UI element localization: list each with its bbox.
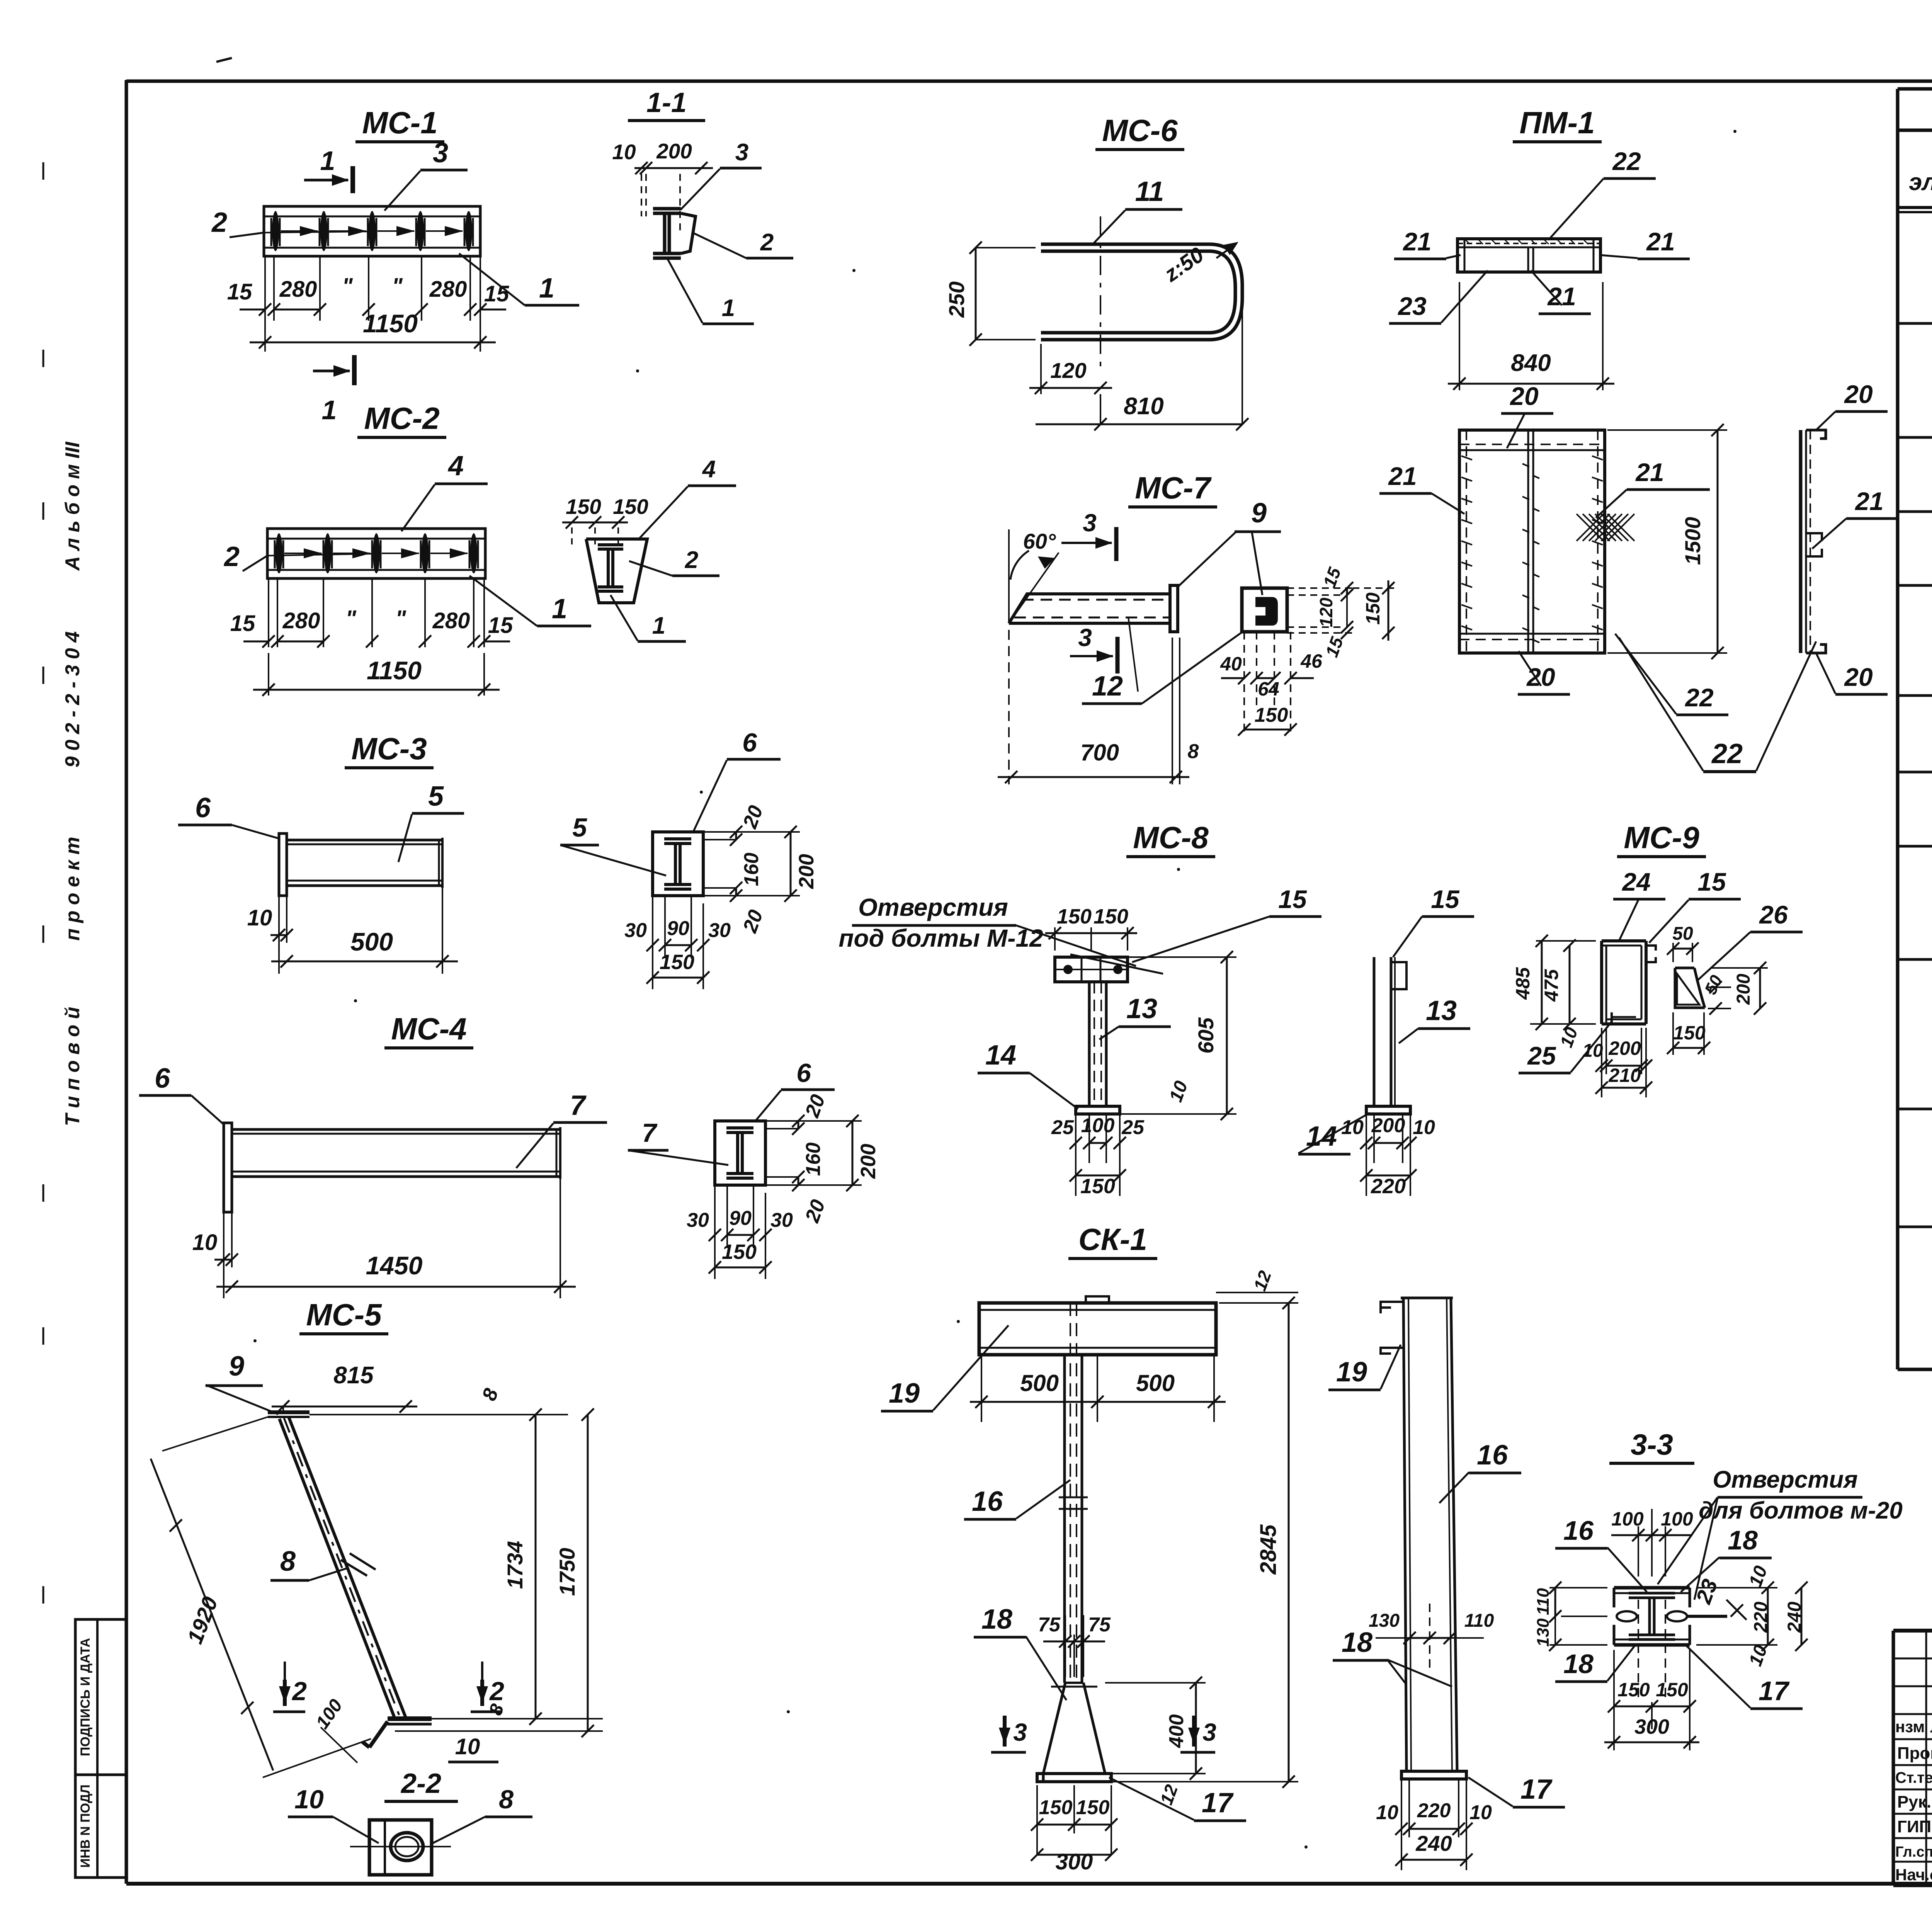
svg-text:6: 6 (155, 1063, 170, 1094)
svg-text:15: 15 (488, 613, 513, 638)
svg-text:Нач.отд.: Нач.отд. (1895, 1866, 1932, 1884)
svg-text:МС-3: МС-3 (351, 731, 427, 766)
svg-text:ПОДПИСЬ И ДАТА: ПОДПИСЬ И ДАТА (78, 1638, 93, 1756)
svg-text:26: 26 (1759, 900, 1788, 929)
svg-text:15: 15 (227, 279, 252, 304)
МС-4 section plate 7-6 (715, 1121, 765, 1185)
svg-text:10: 10 (455, 1734, 480, 1759)
МС-8 side view column (1373, 957, 1376, 1106)
МС-8 side dims below 10 200 10 220 (1366, 1114, 1367, 1196)
svg-text:46: 46 (1300, 650, 1323, 672)
svg-text:200: 200 (656, 139, 692, 163)
svg-text:13: 13 (1426, 995, 1457, 1026)
svg-text:6: 6 (796, 1058, 811, 1088)
svg-text:20: 20 (1844, 380, 1873, 408)
svg-text:240: 240 (1415, 1831, 1452, 1855)
svg-text:12: 12 (1092, 671, 1123, 702)
МС-3 dim 500 (271, 961, 458, 963)
svg-text:64: 64 (1258, 678, 1279, 700)
svg-text:2: 2 (685, 547, 698, 573)
svg-text:элемента: элемента (1909, 169, 1932, 196)
svg-text:4: 4 (447, 451, 464, 481)
МС-9 dims 485 475 (1536, 940, 1596, 942)
svg-text:150: 150 (722, 1240, 757, 1264)
svg-text:120: 120 (1316, 597, 1336, 627)
svg-text:30: 30 (770, 1209, 793, 1231)
СК-1 side dims 130 110 (1376, 1637, 1410, 1639)
svg-text:9: 9 (1251, 498, 1267, 529)
svg-text:220: 220 (1371, 1175, 1406, 1198)
svg-text:25: 25 (1121, 1116, 1145, 1139)
svg-text:9: 9 (229, 1351, 244, 1382)
svg-text:110: 110 (1464, 1611, 1494, 1631)
svg-text:": " (392, 274, 403, 299)
side box Инв N подл (75, 1775, 126, 1878)
svg-text:200: 200 (1733, 974, 1754, 1005)
svg-text:21: 21 (1388, 462, 1417, 490)
svg-text:1150: 1150 (363, 309, 418, 338)
svg-text:160: 160 (802, 1143, 825, 1176)
svg-text:5: 5 (428, 781, 444, 812)
СК-1 column (1063, 1355, 1066, 1683)
МС-6 centerline (1100, 216, 1101, 371)
МС-6 dim 250 left (975, 248, 977, 340)
МС-6 U-bolt rod (1041, 244, 1242, 340)
МС-2 dimension row (268, 578, 269, 647)
ПМ-1 plan hatch patch (1577, 514, 1604, 541)
svg-text:15: 15 (1278, 885, 1307, 913)
svg-text:9 0 2 - 2 - 3 0 4: 9 0 2 - 2 - 3 0 4 (61, 631, 84, 768)
ПМ-1 top view bar (1458, 239, 1600, 272)
svg-text:485: 485 (1512, 967, 1534, 1000)
spec table outer (1896, 89, 1900, 1369)
МС-8 column (1088, 982, 1091, 1106)
svg-text:475: 475 (1541, 969, 1562, 1002)
svg-text:1: 1 (722, 295, 735, 321)
svg-text:10: 10 (1469, 1801, 1492, 1824)
МС-8 dim 605 (1128, 956, 1236, 958)
svg-text:1150: 1150 (367, 656, 422, 685)
svg-text:100: 100 (1081, 1114, 1115, 1137)
section marks 2-2 (283, 1680, 287, 1706)
svg-text:21: 21 (1402, 227, 1431, 256)
3-3 dims 150 150 300 (1613, 1650, 1615, 1750)
svg-text:10: 10 (294, 1785, 324, 1814)
СК-1 dims 150 150 300 (1036, 1785, 1038, 1855)
МС-5 slanted strut (289, 1417, 406, 1719)
svg-text:150: 150 (1094, 905, 1128, 928)
МС-4 section dims right (765, 1120, 862, 1122)
svg-text:500: 500 (350, 927, 393, 956)
svg-text:нзм: нзм (1895, 1718, 1925, 1736)
svg-text:МС-2: МС-2 (364, 401, 440, 435)
svg-text:17: 17 (1520, 1774, 1553, 1805)
svg-text:23: 23 (1397, 292, 1426, 320)
svg-text:2: 2 (489, 1677, 504, 1706)
svg-text:280: 280 (279, 277, 317, 302)
svg-text:2: 2 (223, 541, 240, 572)
svg-text:3: 3 (1013, 1718, 1027, 1746)
СК-1 top flange beam (979, 1303, 1216, 1355)
svg-text:для болтов м-20: для болтов м-20 (1699, 1497, 1903, 1524)
svg-text:210: 210 (1608, 1065, 1641, 1086)
МС-7 section mark 3 lower (1116, 637, 1120, 673)
МС-4 section dims below (714, 1185, 716, 1279)
СК-1 side base (1401, 1771, 1466, 1779)
svg-text:МС-6: МС-6 (1102, 113, 1178, 148)
svg-text:150: 150 (1362, 592, 1384, 625)
svg-text:3: 3 (735, 139, 748, 166)
СК-1 side hooks (1381, 1302, 1403, 1308)
svg-text:МС-8: МС-8 (1133, 820, 1209, 855)
beam МС-1 top view (264, 206, 480, 256)
svg-text:1: 1 (652, 612, 665, 639)
svg-text:220: 220 (1417, 1799, 1451, 1822)
svg-text:500: 500 (1020, 1370, 1059, 1396)
svg-text:11: 11 (1135, 176, 1164, 207)
МС-7 section mark 3 upper (1114, 527, 1119, 561)
section mark 1 lower (352, 355, 357, 385)
МС-5 vertical dims 1734 1750 (310, 1414, 568, 1415)
ПМ-1 plan weld ticks (1461, 456, 1472, 460)
svg-text:7: 7 (642, 1118, 658, 1148)
svg-text:280: 280 (432, 608, 470, 633)
svg-text:3-3: 3-3 (1631, 1429, 1673, 1461)
svg-text:30: 30 (687, 1209, 709, 1231)
svg-text:130: 130 (1369, 1611, 1400, 1631)
svg-text:815: 815 (333, 1362, 374, 1389)
gusset dims 50 50 200 150 (1672, 943, 1674, 962)
svg-text:5: 5 (572, 813, 587, 842)
3-3 dims right 10 220 240 10 (1696, 1587, 1777, 1588)
svg-text:1: 1 (552, 594, 567, 624)
svg-text:150: 150 (613, 495, 648, 519)
svg-text:220: 220 (1751, 1602, 1771, 1633)
svg-text:30: 30 (624, 919, 647, 942)
svg-text:300: 300 (1634, 1715, 1669, 1738)
section marks 3 (1003, 1716, 1007, 1747)
МС-7 channel bar side view (1009, 594, 1170, 623)
svg-text:1750: 1750 (555, 1548, 579, 1596)
scan dash top left (216, 58, 232, 62)
3-3 section drawing (1614, 1586, 1690, 1590)
section dims right 20 160 20 200 (703, 831, 800, 833)
svg-text:21: 21 (1547, 282, 1576, 311)
svg-text:10: 10 (1413, 1116, 1435, 1139)
svg-text:150: 150 (1617, 1679, 1650, 1701)
svg-text:18: 18 (1728, 1525, 1758, 1555)
svg-text:18: 18 (1563, 1649, 1594, 1679)
МС-8 dims below 25 100 25 150 (1075, 1114, 1077, 1196)
svg-text:1: 1 (322, 395, 337, 425)
СК-1 base trapezoid (1065, 1682, 1083, 1684)
СК-1 column break mark (1059, 1497, 1088, 1498)
svg-text:4: 4 (702, 456, 716, 483)
svg-text:16: 16 (1563, 1515, 1594, 1546)
svg-text:500: 500 (1136, 1370, 1175, 1396)
svg-text:10: 10 (1341, 1116, 1364, 1139)
svg-text:2-2: 2-2 (400, 1768, 441, 1799)
svg-text:810: 810 (1124, 393, 1163, 420)
МС-9 gusset triangle 26 (1675, 967, 1694, 969)
svg-text:Гл.спец.отд: Гл.спец.отд (1895, 1844, 1932, 1860)
scan speckles (636, 369, 639, 372)
МС-5 dim 815 (272, 1406, 417, 1408)
sheet frame top border (126, 80, 1932, 83)
svg-text:150: 150 (1080, 1175, 1115, 1198)
svg-text:3: 3 (433, 138, 448, 168)
svg-text:Отверстия: Отверстия (1713, 1466, 1858, 1493)
svg-text:18: 18 (981, 1604, 1012, 1635)
svg-text:75: 75 (1088, 1614, 1111, 1636)
svg-text:840: 840 (1511, 350, 1551, 376)
spec table column header lines (1898, 206, 1932, 209)
svg-text:15: 15 (1431, 885, 1460, 913)
svg-text:МС-4: МС-4 (391, 1012, 467, 1046)
svg-text:А л ь б о м III: А л ь б о м III (61, 441, 84, 571)
svg-text:200: 200 (857, 1144, 880, 1179)
МС-7 end plate (1170, 585, 1178, 632)
svg-text:10: 10 (1376, 1801, 1398, 1824)
side box Подпись и дата (75, 1619, 126, 1775)
1-1 dims 10 200 (641, 167, 646, 169)
title block frame (1893, 1629, 1932, 1633)
svg-text:22: 22 (1684, 683, 1714, 712)
МС-9 channel assembly (1602, 939, 1646, 942)
СК-1 dims 75 75 (1065, 1615, 1066, 1677)
МС-5 slanted dim 1920 (151, 1459, 273, 1770)
svg-text:14: 14 (985, 1040, 1016, 1071)
sheet frame bottom border (126, 1882, 1932, 1886)
svg-text:": " (345, 606, 357, 631)
3-3 dims left 110 130 (1549, 1587, 1607, 1588)
svg-text:1: 1 (320, 146, 335, 176)
svg-text:21: 21 (1854, 487, 1883, 515)
ПМ-1 plan (1459, 430, 1605, 653)
svg-text:2845: 2845 (1256, 1524, 1281, 1575)
svg-text:Рук.гр: Рук.гр (1897, 1793, 1932, 1811)
svg-text:200: 200 (795, 854, 818, 889)
svg-text:2: 2 (760, 229, 774, 256)
МС-7 dims right 15 120 15 150 (1287, 587, 1352, 589)
МС-5 bottom plate and angle (388, 1716, 432, 1721)
МС-7 channel section square (1242, 588, 1287, 632)
svg-text:МС-1: МС-1 (362, 105, 438, 140)
svg-text:150: 150 (1255, 704, 1288, 726)
svg-text:1-1: 1-1 (646, 87, 687, 118)
svg-text:21: 21 (1635, 458, 1664, 486)
svg-text:8: 8 (1188, 740, 1199, 763)
СК-1 side dims 10 220 10 240 (1401, 1779, 1402, 1870)
МС-3 side view bar (279, 833, 287, 896)
svg-text:75: 75 (1038, 1614, 1061, 1636)
МС-4 dim 10 (223, 1212, 224, 1298)
svg-text:21: 21 (1646, 227, 1675, 256)
svg-text:МС-9: МС-9 (1624, 820, 1699, 855)
svg-text:15: 15 (1697, 867, 1726, 896)
svg-text:Ст.техник: Ст.техник (1895, 1769, 1932, 1786)
МС-2 dimension 1150 (268, 653, 269, 696)
svg-text:8: 8 (499, 1785, 514, 1814)
svg-text:Провер.: Провер. (1897, 1744, 1932, 1763)
svg-text:200: 200 (1608, 1037, 1641, 1059)
СК-1 dim 400 (1105, 1682, 1206, 1684)
svg-text:6: 6 (195, 793, 211, 823)
МС-8 top plate (1055, 957, 1128, 982)
svg-text:300: 300 (1056, 1849, 1093, 1874)
svg-text:150: 150 (1673, 1022, 1706, 1044)
svg-text:МС-5: МС-5 (306, 1298, 382, 1332)
svg-text:МС-7: МС-7 (1135, 471, 1212, 505)
svg-text:100: 100 (1611, 1508, 1644, 1530)
МС-5 top plate (268, 1410, 310, 1414)
svg-text:90: 90 (729, 1207, 752, 1230)
svg-text:20: 20 (1509, 382, 1539, 410)
svg-text:250: 250 (944, 281, 969, 318)
svg-text:40: 40 (1220, 653, 1242, 675)
svg-text:10: 10 (247, 905, 272, 930)
МС-7 dim 700 8 (1008, 630, 1010, 784)
svg-text:": " (395, 606, 406, 631)
svg-text:50: 50 (1672, 923, 1693, 944)
svg-text:20: 20 (1844, 663, 1873, 691)
ПМ-1 side channel (1799, 430, 1803, 653)
svg-text:90: 90 (667, 917, 689, 940)
svg-text:22: 22 (1711, 738, 1743, 769)
svg-text:10: 10 (612, 140, 636, 164)
svg-text:13: 13 (1126, 993, 1157, 1024)
svg-text:30: 30 (708, 919, 731, 942)
СК-1 side view column (1401, 1297, 1453, 1299)
svg-text:2: 2 (291, 1677, 307, 1706)
svg-text:60°: 60° (1023, 529, 1056, 553)
svg-text:15: 15 (230, 611, 255, 636)
svg-text:6: 6 (742, 728, 757, 757)
МС-3 dim 10 (278, 896, 280, 974)
svg-text:3: 3 (1083, 509, 1097, 537)
svg-text:20: 20 (1526, 663, 1555, 691)
svg-text:100: 100 (1661, 1508, 1693, 1530)
svg-text:под болты М-12: под болты М-12 (838, 924, 1043, 952)
svg-text:1450: 1450 (366, 1251, 423, 1280)
svg-text:1: 1 (539, 273, 554, 304)
МС-4 side view bar (224, 1123, 232, 1212)
svg-text:3: 3 (1202, 1718, 1216, 1746)
svg-text:120: 120 (1050, 358, 1086, 383)
svg-text:": " (342, 274, 353, 299)
СК-1 dim 2845 (1219, 1302, 1298, 1304)
svg-text:17: 17 (1202, 1787, 1234, 1818)
svg-text:130: 130 (1534, 1618, 1553, 1647)
svg-text:ПМ-1: ПМ-1 (1519, 105, 1595, 140)
svg-text:150: 150 (566, 495, 601, 519)
svg-text:п р о е к т: п р о е к т (61, 837, 84, 940)
svg-text:18: 18 (1342, 1627, 1372, 1658)
svg-text:150: 150 (660, 951, 694, 974)
МС-9 dims below 10 200 210 (1601, 1028, 1602, 1097)
МС-8 side base plate (1366, 1106, 1410, 1114)
МС-1 dimension row 15-280-280-15 (264, 256, 266, 321)
svg-text:16: 16 (1477, 1440, 1508, 1471)
svg-text:25: 25 (1527, 1041, 1556, 1070)
СК-1 dim 500 500 (981, 1355, 982, 1422)
svg-text:150: 150 (1039, 1796, 1073, 1819)
svg-text:605: 605 (1194, 1017, 1218, 1053)
svg-text:240: 240 (1784, 1602, 1805, 1633)
svg-text:110: 110 (1534, 1588, 1553, 1615)
svg-text:ИНВ N ПОДЛ: ИНВ N ПОДЛ (78, 1784, 93, 1868)
svg-text:СК-1: СК-1 (1078, 1222, 1147, 1257)
svg-text:19: 19 (889, 1378, 920, 1409)
op 1-1 I-beam section with plate (653, 207, 681, 211)
svg-text:200: 200 (1371, 1114, 1405, 1137)
scan fold marks left margin (43, 162, 44, 180)
svg-text:16: 16 (972, 1486, 1003, 1517)
svg-text:150: 150 (1057, 905, 1092, 928)
svg-text:400: 400 (1165, 1714, 1188, 1748)
ПМ-1 dim 840 (1459, 282, 1460, 390)
svg-text:150: 150 (1656, 1679, 1688, 1701)
svg-text:1734: 1734 (503, 1541, 527, 1589)
ПМ-1 dim 1500 (1607, 429, 1727, 431)
МС-8 dims 150 150 top (1054, 927, 1056, 951)
section mark 1 upper (350, 166, 355, 193)
МС-2 trapezoid section (586, 539, 647, 603)
2-2 plate with hole (369, 1820, 432, 1875)
МС-6 dim 120 (1040, 344, 1042, 394)
МС-1 dimension 1150 (264, 321, 266, 352)
svg-text:7: 7 (570, 1090, 587, 1121)
МС-6 dim 810 (1100, 394, 1101, 425)
svg-text:280: 280 (282, 608, 320, 633)
svg-text:700: 700 (1080, 740, 1119, 765)
svg-text:25: 25 (1051, 1116, 1074, 1139)
svg-text:3: 3 (1078, 624, 1092, 651)
section dims below 30 90 30 150 (652, 896, 653, 989)
svg-text:1500: 1500 (1680, 517, 1705, 565)
svg-text:Т и п о в о й: Т и п о в о й (61, 1007, 84, 1126)
МС-8 base plate (1076, 1106, 1120, 1114)
svg-text:280: 280 (429, 277, 467, 302)
svg-text:8: 8 (280, 1546, 296, 1577)
beam МС-2 top view (267, 529, 485, 578)
svg-text:19: 19 (1336, 1357, 1367, 1388)
svg-text:10: 10 (192, 1230, 218, 1255)
svg-text:Отверстия: Отверстия (858, 893, 1008, 921)
svg-text:17: 17 (1759, 1676, 1790, 1706)
3-3 dims 100 100 (1638, 1526, 1639, 1577)
svg-text:2: 2 (211, 207, 227, 238)
svg-text:160: 160 (740, 853, 763, 886)
svg-text:24: 24 (1621, 867, 1650, 896)
МС-4 dim 1450 (216, 1286, 576, 1288)
svg-text:лист: лист (1930, 1718, 1932, 1736)
svg-text:150: 150 (1076, 1796, 1110, 1819)
svg-text:ГИП: ГИП (1897, 1817, 1931, 1836)
МС-7 dims below 40 64 46 150 (1243, 632, 1245, 734)
МС-2 section dims 150 150 (562, 522, 628, 524)
svg-text:22: 22 (1612, 147, 1641, 175)
МС-3 section plate 5-6 (653, 832, 703, 896)
svg-text:15: 15 (484, 281, 509, 306)
sheet frame left border (125, 80, 128, 1884)
